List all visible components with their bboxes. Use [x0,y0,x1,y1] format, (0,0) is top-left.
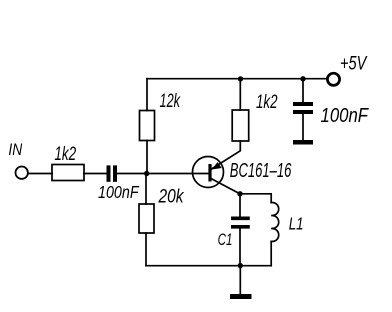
ground bar [230,294,252,299]
resistor 1k2 (emitter) [232,110,249,141]
wire node A to transistor base [147,173,209,175]
wire 12k to node A [146,141,148,174]
terminal +5V [327,73,339,85]
node C junction (collector / tank) [237,191,242,196]
transistor collector wire [211,179,240,194]
svg-text:BC161–16: BC161–16 [230,160,292,182]
wire C 100nF to node A [117,173,147,175]
terminal IN [16,167,28,179]
resistor 1k2 (input series) [52,165,84,181]
capacitor 100nF (decoupling) plates [293,104,313,112]
svg-text:20k: 20k [158,185,185,207]
svg-text:100nF: 100nF [98,182,140,202]
wire node C to L1 branch [240,194,271,203]
node D junction (bottom rail / ground) [238,263,243,268]
capacitor C1 plates [231,218,250,227]
node E junction (rail / 100nF) [300,76,305,81]
transistor base bar [208,164,211,182]
transistor emitter arrow [212,162,222,170]
svg-text:C1: C1 [218,231,233,249]
svg-text:100nF: 100nF [321,105,370,127]
wire C1 to bottom rail [239,227,241,266]
wire R 1k2 to C 100nF [84,173,107,175]
wire node C down to C1 [239,194,241,217]
wire 20k to bottom rail [145,233,147,266]
top supply rail [147,78,326,80]
ground bar (decoupling) [293,140,313,145]
node A junction [144,171,149,176]
node B junction (rail / 1k2) [238,76,243,81]
wire IN to R 1k2 [29,173,52,175]
wire 1k2 to emitter [212,141,241,169]
wire 100nF to ground bar [302,112,304,140]
svg-text:1k2: 1k2 [256,91,278,113]
transistor Q1 BC161-16 circle [193,157,224,188]
ground stem [239,266,241,294]
svg-text:+5V: +5V [340,53,368,74]
svg-text:IN: IN [8,141,22,159]
svg-text:L1: L1 [289,213,304,233]
resistor 12k [140,111,155,141]
wire L1 to bottom rail [270,242,272,266]
wire 20k top [145,174,147,205]
resistor 20k [139,204,154,233]
wire rail to 100nF [302,79,304,102]
wire rail to 12k [146,79,148,111]
bottom rail [146,265,271,267]
capacitor 100nF (input series) [109,165,116,181]
svg-text:12k: 12k [160,90,181,112]
wire rail to 1k2 [239,79,241,110]
inductor L1 [271,202,279,241]
svg-text:1k2: 1k2 [54,143,76,165]
